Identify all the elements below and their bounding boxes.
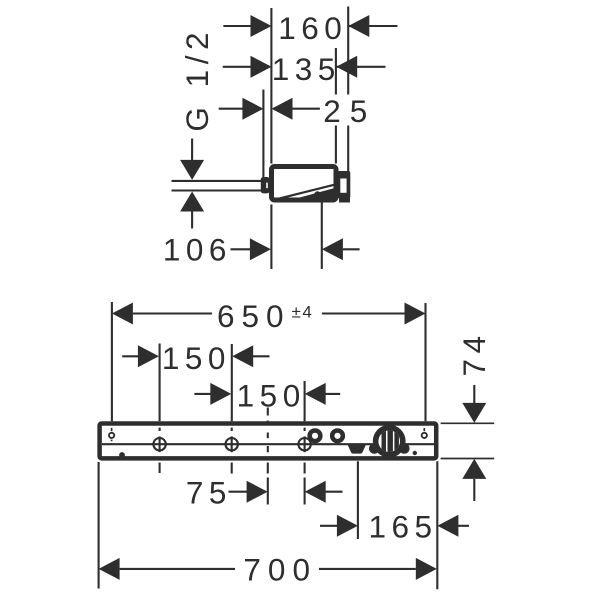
shower bar (front view) — [100, 424, 437, 459]
center dashed line below bar — [267, 463, 269, 505]
valve right clamp bracket — [338, 171, 351, 203]
hole 3 dashes below bar — [304, 463, 306, 505]
svg-text:150: 150 — [162, 340, 231, 376]
mounting hole 3 — [298, 428, 310, 453]
hole 2 dash below bar — [231, 463, 233, 474]
bar divider line — [102, 443, 436, 445]
svg-text:700: 700 — [243, 552, 317, 588]
dimension 135 — [223, 51, 386, 87]
svg-text:74: 74 — [456, 330, 492, 376]
dimension 75 — [186, 475, 343, 511]
svg-text:25: 25 — [323, 93, 376, 129]
svg-text:75: 75 — [186, 475, 232, 511]
outlet spout — [348, 445, 367, 454]
right screw hole — [422, 428, 427, 438]
dimension 74 (rotated label) — [456, 330, 492, 501]
extension line valve outlet (106 right reference) — [321, 196, 323, 270]
extension line 135 right — [335, 48, 337, 164]
74 bottom reference line — [441, 458, 495, 460]
svg-text:160: 160 — [278, 10, 347, 46]
dimension 106 — [163, 231, 360, 267]
svg-text:G 1/2: G 1/2 — [179, 27, 215, 132]
thermostat knob — [369, 425, 410, 458]
extension line 650 left — [111, 302, 113, 421]
extension line bar left edge below — [98, 462, 100, 589]
mounting hole 2 — [226, 428, 238, 453]
valve internal diagonal lever — [272, 185, 334, 201]
dimension 700 — [99, 552, 437, 588]
74 top reference line — [441, 422, 495, 424]
extension line hole1 — [159, 344, 161, 422]
hole 1 dash below bar — [159, 463, 161, 474]
select button 1 — [307, 428, 322, 443]
dimension 150 (hole2-hole3) — [194, 377, 340, 413]
svg-text:165: 165 — [368, 508, 437, 544]
extension line left of valve (160/135/106 reference) — [270, 8, 272, 269]
extension line spout below bar — [357, 461, 359, 539]
center dashed line in bar — [267, 433, 269, 453]
svg-text:150: 150 — [237, 377, 306, 413]
center dashed line above bar — [267, 408, 269, 422]
dimension 650 +-4 — [112, 298, 426, 334]
valve inlet nipple G1/2 — [261, 177, 270, 193]
dimension 165 — [320, 508, 469, 544]
svg-text:±4: ±4 — [292, 303, 314, 322]
dimension 160 — [223, 10, 397, 46]
extension line 650 right — [424, 303, 426, 421]
extension line hole3 — [304, 381, 306, 421]
extension line at valve left face (25 reference) — [262, 90, 264, 178]
dimension 25 — [219, 93, 377, 129]
select button 2 — [330, 428, 345, 443]
dimension 150 (hole1-hole2) — [122, 340, 269, 376]
extension line bar right edge below — [436, 461, 438, 589]
right bottom dot — [413, 451, 417, 455]
extension line hole2 — [231, 344, 233, 421]
mounting hole 1 — [153, 428, 165, 453]
svg-text:650: 650 — [217, 298, 291, 334]
left bottom dot — [119, 452, 125, 458]
svg-text:106: 106 — [163, 231, 232, 267]
G 1/2 leader and gap arrows — [172, 139, 262, 229]
extension line 160 right — [347, 7, 349, 173]
left screw hole — [109, 428, 114, 441]
valve body (side view) — [272, 167, 337, 201]
svg-text:135: 135 — [272, 51, 341, 87]
